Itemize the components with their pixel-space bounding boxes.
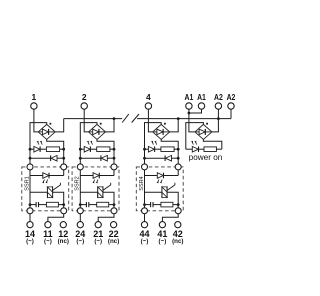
svg-text:SSR4: SSR4 [139, 176, 145, 190]
wire right vert to optocoupler [63, 167, 65, 176]
SSR input terminal right [111, 164, 117, 170]
wire A1 to bridge [189, 109, 195, 132]
bridge rectifier channel 4 [153, 124, 170, 139]
wire triac left [80, 191, 97, 193]
wire optocoupler row [145, 175, 158, 177]
wire to terminal 11 [48, 214, 64, 222]
svg-text:(~): (~) [141, 238, 149, 245]
svg-text:2: 2 [82, 92, 87, 102]
wire terminal 1 to bridge input [34, 109, 38, 132]
capacitor channel 2 [85, 202, 87, 207]
wire optocoupler row [30, 175, 43, 177]
diode channel 2 [100, 155, 102, 161]
diode channel 1 [50, 155, 52, 161]
wire to terminal 41 [162, 214, 178, 222]
terminal A2 [228, 103, 234, 109]
wire optocoupler row [80, 175, 93, 177]
SSR input terminal left [77, 164, 83, 170]
wire left interior rail [79, 167, 81, 211]
wire bridge bottom to right rail [97, 139, 114, 167]
break mark [132, 114, 139, 123]
svg-text:(~): (~) [94, 238, 102, 245]
svg-text:SSR2: SSR2 [75, 176, 81, 190]
junction A2 bus [217, 117, 220, 120]
svg-text:(nc): (nc) [172, 238, 183, 245]
wire diode row [30, 157, 51, 159]
terminal 22 [111, 222, 117, 228]
wire LED row [80, 148, 84, 150]
svg-text:power on: power on [189, 153, 223, 162]
wire bridge output to bus [170, 119, 179, 132]
wire bridge output to bus [106, 119, 115, 132]
svg-text:A1: A1 [185, 92, 194, 102]
svg-text:(nc): (nc) [108, 238, 119, 245]
junction [177, 203, 180, 206]
wire left rail [30, 123, 47, 167]
triac channel 2 [97, 186, 99, 198]
terminal 41 [159, 222, 165, 228]
wire snubber row [145, 204, 151, 206]
terminal 42 [175, 222, 181, 228]
wire triac left [145, 191, 162, 193]
wire A2 riser [230, 109, 232, 118]
wire left rail [80, 123, 97, 167]
wire left interior rail [144, 167, 146, 211]
wire triac right to output [103, 192, 114, 211]
terminal 11 [45, 222, 51, 228]
power resistor [204, 147, 216, 152]
junction [62, 148, 65, 151]
junction [143, 148, 146, 151]
junction [113, 157, 116, 160]
wire left interior rail [29, 167, 31, 211]
resistor channel 2 [97, 147, 110, 152]
SSR output terminal left [27, 208, 33, 214]
SSR output terminal right [175, 208, 181, 214]
junction [177, 157, 180, 160]
junction [113, 148, 116, 151]
wire bridge output to bus [55, 119, 64, 132]
svg-text:A1: A1 [197, 92, 206, 102]
SSR output terminal left [142, 208, 148, 214]
junction [113, 203, 116, 206]
wire power LED row [186, 148, 193, 150]
junction [62, 203, 65, 206]
LED indicator channel 4 [148, 146, 154, 152]
terminal 24 [77, 222, 83, 228]
svg-text:(~): (~) [26, 238, 34, 245]
svg-text:(nc): (nc) [58, 238, 69, 245]
triac gate [53, 183, 61, 191]
resistor channel 1 [46, 147, 59, 152]
wire power rail [186, 123, 204, 150]
SSR input terminal right [61, 164, 67, 170]
wire terminal 2 to bridge input [84, 109, 88, 132]
capacitor channel 1 [35, 202, 37, 207]
junction [177, 148, 180, 151]
wire terminal 4 to bridge input [148, 109, 152, 132]
terminal 12 [60, 222, 66, 228]
wire right vert to optocoupler [113, 167, 115, 176]
wire to terminal 44 [144, 214, 146, 222]
power on LED [192, 146, 198, 152]
wire diode row [80, 157, 101, 159]
bus wire segment [64, 118, 122, 120]
wire LED row [145, 148, 149, 150]
junction [29, 203, 32, 206]
optocoupler LED channel 2 [93, 173, 99, 179]
wire A1 tie [189, 109, 202, 113]
terminal A1 [198, 103, 204, 109]
power bridge rectifier [195, 124, 212, 139]
capacitor channel 4 [150, 202, 152, 207]
triac gate [167, 183, 175, 191]
junction [79, 203, 82, 206]
SSR input terminal right [175, 164, 181, 170]
diode channel 4 [164, 155, 166, 161]
svg-text:(~): (~) [159, 238, 167, 245]
wire to terminal 14 [29, 214, 31, 222]
wire bridge bottom to right rail [47, 139, 64, 167]
junction [29, 157, 32, 160]
terminal 44 [141, 222, 147, 228]
terminal 14 [27, 222, 33, 228]
wire bridge bottom to right rail [161, 139, 178, 167]
SSR input terminal left [27, 164, 33, 170]
junction A1 [188, 112, 191, 115]
bridge rectifier channel 1 [38, 124, 55, 139]
optocoupler LED channel 4 [157, 173, 163, 179]
optocoupler LED channel 1 [43, 173, 49, 179]
SSR output terminal right [111, 208, 117, 214]
junction [62, 157, 65, 160]
snubber resistor channel 2 [97, 202, 109, 207]
SSR input terminal left [142, 164, 148, 170]
snubber resistor channel 1 [46, 202, 58, 207]
junction channel 4 bus [177, 117, 180, 120]
SSR1 box [22, 167, 69, 211]
resistor channel 4 [161, 147, 174, 152]
svg-text:A2: A2 [214, 92, 223, 102]
break mark [122, 114, 129, 123]
junction [79, 148, 82, 151]
junction [29, 148, 32, 151]
wire snubber row [80, 204, 86, 206]
wire LED row [30, 148, 34, 150]
svg-text:A2: A2 [227, 92, 236, 102]
wire to terminal 21 [98, 214, 114, 222]
wire snubber row [30, 204, 36, 206]
wire right vert to optocoupler [177, 167, 179, 176]
junction channel 2 bus [113, 117, 116, 120]
junction [79, 157, 82, 160]
wire triac right to output [167, 192, 178, 211]
terminal A2 [215, 103, 221, 109]
svg-text:(~): (~) [44, 238, 52, 245]
triac channel 1 [46, 186, 48, 198]
svg-text:1: 1 [32, 92, 37, 102]
SSR output terminal left [77, 208, 83, 214]
svg-text:(~): (~) [76, 238, 84, 245]
bridge rectifier channel 2 [89, 124, 106, 139]
snubber resistor channel 4 [161, 202, 173, 207]
LED indicator channel 1 [34, 146, 40, 152]
SSR4 box [136, 167, 183, 211]
junction [143, 203, 146, 206]
triac channel 4 [161, 186, 163, 198]
SSR output terminal right [61, 208, 67, 214]
wire left rail [145, 123, 162, 167]
wire A2 to bridge [212, 109, 219, 132]
wire diode row [145, 157, 166, 159]
terminal 21 [95, 222, 101, 228]
wire power LED return [203, 139, 221, 149]
junction [143, 157, 146, 160]
bus wire segment [137, 118, 231, 120]
terminal 4 [145, 103, 151, 109]
terminal 2 [81, 103, 87, 109]
LED indicator channel 2 [84, 146, 90, 152]
svg-text:SSR1: SSR1 [24, 176, 30, 190]
svg-text:4: 4 [146, 92, 151, 102]
terminal 1 [31, 103, 37, 109]
SSR2 box [72, 167, 119, 211]
wire triac left [30, 191, 47, 193]
triac gate [103, 183, 111, 191]
wire triac right to output [53, 192, 64, 211]
terminal A1 [186, 103, 192, 109]
wire to terminal 24 [79, 214, 81, 222]
